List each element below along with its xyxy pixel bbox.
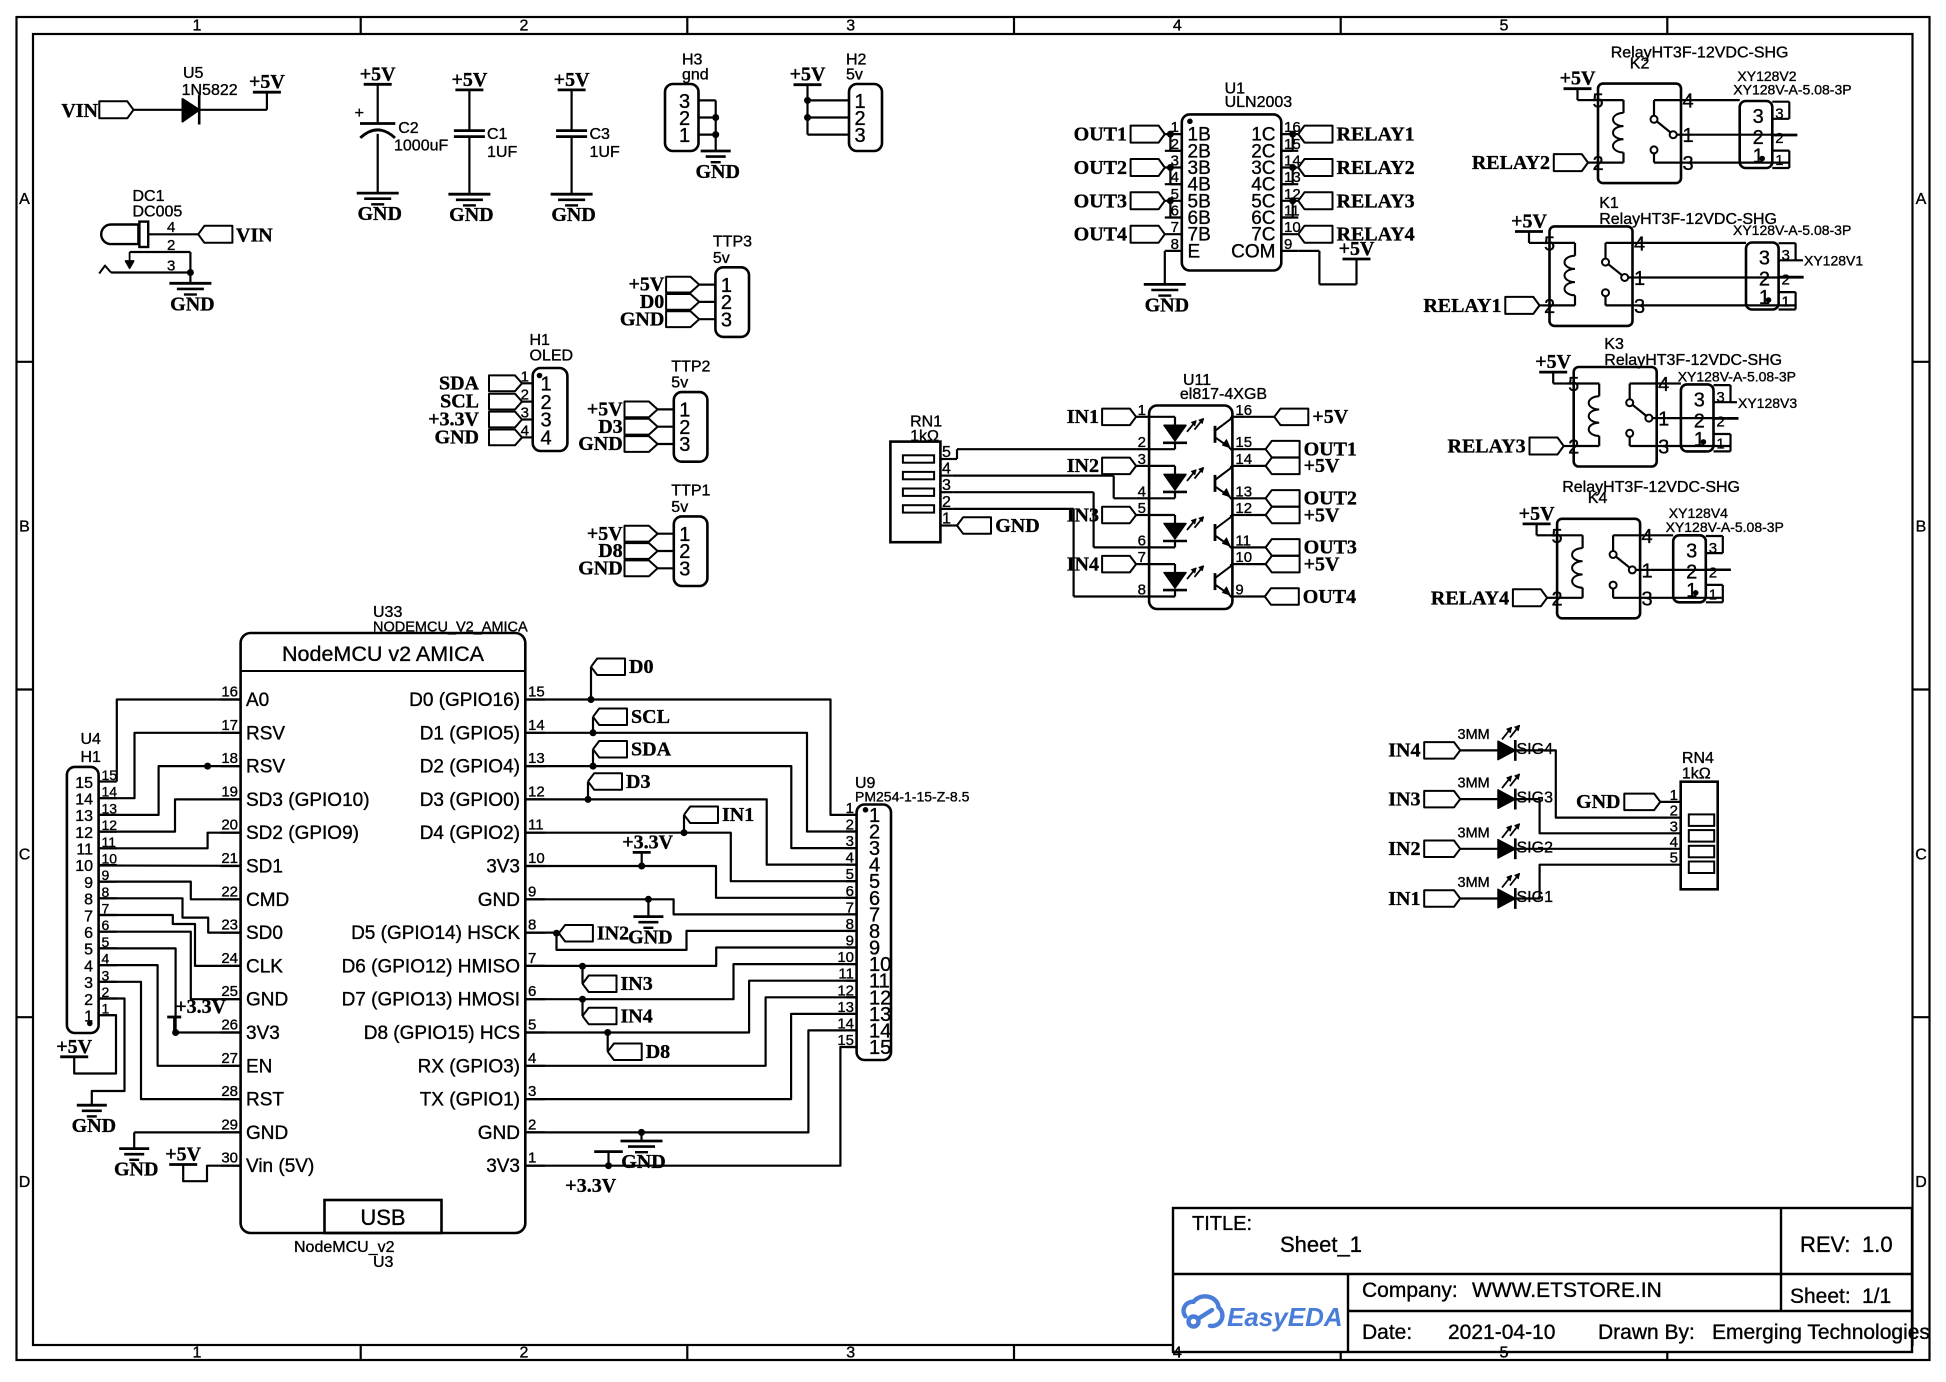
LED SIG1 3MM <box>1458 874 1554 909</box>
net flag OUT1 (U11 pin15) <box>1266 439 1357 461</box>
net flag +5V (U11 pin12) <box>1266 504 1340 526</box>
net flag OUT2 into U1 <box>1074 157 1165 179</box>
LED SIG2 3MM <box>1458 824 1554 859</box>
svg-text:D2 (GPIO4): D2 (GPIO4) <box>420 757 520 778</box>
connector XY128V4c XY128V-A-5.08-3P <box>1673 535 1717 603</box>
net flag RELAY2 from U1 <box>1298 157 1414 179</box>
wire TTP1 GND stub <box>658 567 674 569</box>
svg-text:10: 10 <box>102 851 118 867</box>
title block sheet name Sheet_1 <box>1280 1232 1362 1257</box>
resistor network RN1 1kOhm <box>890 414 952 543</box>
relay K4 RelayHT3F-12VDC-SHG <box>1547 519 1653 619</box>
svg-text:3V3: 3V3 <box>486 1156 520 1177</box>
svg-text:9: 9 <box>84 875 93 892</box>
wire +5V to K3 pin5 <box>1553 372 1564 383</box>
svg-text:1: 1 <box>679 125 690 147</box>
connector TTP1 body <box>674 516 708 586</box>
svg-text:12: 12 <box>528 783 545 800</box>
svg-text:28: 28 <box>221 1083 238 1100</box>
svg-text:15: 15 <box>528 684 545 701</box>
title block frame <box>1173 1208 1912 1352</box>
svg-text:TTP2: TTP2 <box>671 358 710 375</box>
title block Company <box>1362 1279 1662 1302</box>
junction RELAY3 node <box>1289 197 1296 204</box>
svg-text:B: B <box>19 519 30 536</box>
svg-text:SCL: SCL <box>631 706 670 728</box>
optocoupler cell 2 (LED + phototransistor) <box>1149 466 1232 498</box>
wire relay pin4 to XY128V3c <box>1667 382 1681 384</box>
wire XY128V4c pin2 stub <box>1706 568 1731 570</box>
svg-text:Sheet_1: Sheet_1 <box>1280 1232 1362 1257</box>
capacitor C3 1UF <box>556 126 620 161</box>
svg-text:1: 1 <box>1670 787 1678 804</box>
svg-text:CMD: CMD <box>246 890 289 911</box>
wire OUT1 fork to U1 pin2 <box>1170 134 1181 151</box>
svg-text:GND: GND <box>114 1159 158 1181</box>
ground GND (U4 pin2) <box>72 1105 116 1137</box>
wire TTP2 GND stub <box>658 443 674 445</box>
svg-text:GND: GND <box>246 990 288 1011</box>
svg-text:Vin (5V): Vin (5V) <box>246 1156 314 1177</box>
pin numbers H1 OLED stubs <box>521 368 529 439</box>
svg-text:Sheet:: Sheet: <box>1790 1285 1851 1308</box>
wire relay pin1 to XY128V1c pin2 <box>1643 276 1804 278</box>
wire D7 pin6 to U9 pin10 <box>525 964 856 999</box>
wire U4 pin1 to +5V <box>74 1015 116 1073</box>
svg-text:15: 15 <box>102 767 118 783</box>
svg-text:12: 12 <box>75 825 93 842</box>
wire U11 pin16 to +5V flag <box>1246 416 1275 418</box>
connector TTP3 5v label <box>713 234 752 267</box>
label XY128V-A-5.08-3P (K1) <box>1733 222 1851 238</box>
wire relay pin4 to XY128V1c <box>1643 242 1747 244</box>
svg-text:5: 5 <box>942 444 951 461</box>
svg-text:K3: K3 <box>1604 336 1624 353</box>
svg-text:GND: GND <box>1145 294 1189 316</box>
wire diode cathode to +5V <box>199 92 267 110</box>
svg-text:4: 4 <box>521 422 529 439</box>
power +5V (C3) <box>554 69 590 91</box>
power +5V (K4 coil) <box>1519 503 1555 525</box>
wire U4 pin3 to RST pin28 <box>99 982 241 1099</box>
svg-text:26: 26 <box>221 1017 238 1034</box>
net flag IN3 to U11 pin5 <box>1067 504 1136 526</box>
wire U4 pin9 to CMD pin22 <box>99 882 241 900</box>
svg-text:C3: C3 <box>590 126 611 143</box>
svg-text:DC1: DC1 <box>133 188 165 205</box>
net flag OUT2 (U11 pin13) <box>1266 488 1357 510</box>
junction IN2 node <box>553 930 560 937</box>
svg-text:13: 13 <box>75 808 93 825</box>
wire RN1 pin4 to U11 pin4 <box>952 476 1136 499</box>
svg-text:1.0: 1.0 <box>1862 1232 1893 1257</box>
svg-text:5: 5 <box>1552 526 1563 548</box>
svg-text:U3: U3 <box>373 1254 394 1271</box>
svg-text:2: 2 <box>520 18 529 35</box>
svg-text:3MM: 3MM <box>1458 776 1490 792</box>
net flag OUT3 into U1 <box>1074 190 1165 212</box>
svg-text:ULN2003: ULN2003 <box>1225 94 1293 111</box>
svg-text:5v: 5v <box>713 250 730 267</box>
svg-text:gnd: gnd <box>682 67 709 84</box>
svg-text:9: 9 <box>528 883 536 900</box>
svg-text:+5V: +5V <box>1560 68 1596 90</box>
net flag RELAY1 from U1 <box>1298 124 1414 146</box>
svg-text:RELAY1: RELAY1 <box>1423 295 1501 317</box>
relay K2 RelayHT3F-12VDC-SHG <box>1588 84 1694 184</box>
power +5V (U1 COM) <box>1339 238 1375 260</box>
wire +5V to K1 pin5 <box>1529 232 1540 243</box>
svg-text:OLED: OLED <box>530 348 574 365</box>
svg-text:3: 3 <box>679 559 690 581</box>
svg-text:+5V: +5V <box>1304 504 1340 526</box>
svg-text:IN4: IN4 <box>1388 740 1420 762</box>
svg-text:A: A <box>19 191 30 208</box>
svg-text:IN3: IN3 <box>621 973 653 995</box>
svg-text:RELAY1: RELAY1 <box>1337 124 1415 146</box>
wire relay pin4 to XY128V4c <box>1650 534 1673 536</box>
connector U4 H1 15-pin <box>67 731 117 1033</box>
svg-text:2: 2 <box>521 387 529 404</box>
ground GND (C1) <box>448 194 493 226</box>
connector TTP2 5v label <box>671 358 710 391</box>
svg-text:SD1: SD1 <box>246 857 283 878</box>
connector TTP3 body <box>715 267 749 337</box>
svg-text:E: E <box>1188 241 1201 262</box>
svg-text:IN3: IN3 <box>1388 788 1420 810</box>
wire U1 pin8 E to GND <box>1164 251 1166 285</box>
net flag +3.3V (H1 OLED) <box>428 409 533 431</box>
svg-text:1000uF: 1000uF <box>394 138 448 155</box>
connector H2 5v <box>846 52 882 152</box>
net flag IN2 (pin8 wire) <box>559 923 629 945</box>
svg-text:+5V: +5V <box>1535 351 1571 373</box>
svg-text:VIN: VIN <box>236 225 273 247</box>
svg-text:15: 15 <box>75 775 93 792</box>
svg-text:3: 3 <box>1782 247 1790 264</box>
svg-text:23: 23 <box>221 917 238 934</box>
wire +5V to C2 <box>377 84 379 123</box>
wire TTP2 +5V stub <box>658 408 674 410</box>
svg-text:+5V: +5V <box>56 1036 92 1058</box>
net flag +5V (U11 pin10) <box>1266 553 1340 575</box>
svg-text:D1 (GPIO5): D1 (GPIO5) <box>420 723 520 744</box>
connector XY128V3c XY128V-A-5.08-3P <box>1681 384 1725 452</box>
svg-text:20: 20 <box>221 817 238 834</box>
net flag OUT4 into U1 <box>1074 224 1165 246</box>
svg-text:3V3: 3V3 <box>246 1023 280 1044</box>
svg-text:5: 5 <box>1568 374 1579 396</box>
junction SDA node <box>590 763 597 770</box>
net flag +5V (U11 pin14) <box>1266 455 1340 477</box>
net flag SDA (H1 OLED) <box>439 372 533 394</box>
svg-text:29: 29 <box>221 1116 238 1133</box>
net flag D8 (TTP1 pin) <box>598 540 657 562</box>
net flag RELAY4 to K4 pin2 <box>1431 587 1547 609</box>
svg-text:4: 4 <box>1173 18 1182 35</box>
wire +5V to C1 <box>468 90 470 131</box>
svg-text:D0: D0 <box>629 656 653 678</box>
svg-text:3: 3 <box>1694 389 1705 411</box>
power +3.3V (pin1 wire) <box>565 1152 623 1197</box>
svg-text:14: 14 <box>528 717 545 734</box>
svg-text:OUT1: OUT1 <box>1074 124 1127 146</box>
ground GND (C2) <box>357 193 402 225</box>
net flag RELAY3 from U1 <box>1298 190 1414 212</box>
svg-text:D3: D3 <box>626 771 650 793</box>
svg-text:3: 3 <box>1670 818 1678 835</box>
junction DC1 pin3 node <box>187 269 194 276</box>
svg-text:3: 3 <box>846 18 855 35</box>
svg-text:5: 5 <box>84 942 93 959</box>
wire U4 pin10 to SD1 pin21 <box>99 864 241 866</box>
wire DC1 pin3 to GND <box>189 273 191 284</box>
svg-text:3V3: 3V3 <box>486 857 520 878</box>
svg-text:2: 2 <box>1592 153 1603 175</box>
ground GND (DC1) <box>169 283 214 315</box>
svg-text:PM254-1-15-Z-8.5: PM254-1-15-Z-8.5 <box>855 789 970 805</box>
svg-text:4: 4 <box>942 461 951 478</box>
title block TITLE <box>1192 1213 1252 1235</box>
net flag IN3 (pin7 wire) <box>583 966 653 995</box>
power +5V (C1) <box>451 69 487 91</box>
junction +3.3V pin10 node <box>638 863 645 870</box>
wire U11 pin12 to +5V flag <box>1246 514 1266 516</box>
net label XY128V3 <box>1731 395 1798 411</box>
wire XY128V3c pin2 stub <box>1714 418 1739 420</box>
wire relay pin3 to XY128V4c pin1 <box>1650 597 1723 599</box>
junction IN1 node <box>681 829 688 836</box>
junction OUT2 node <box>1167 164 1174 171</box>
svg-text:D: D <box>1915 1174 1927 1191</box>
svg-text:5: 5 <box>1138 500 1146 517</box>
svg-text:IN1: IN1 <box>1388 888 1420 910</box>
svg-text:30: 30 <box>221 1150 238 1167</box>
connector DC1 DC005 barrel jack <box>101 188 182 275</box>
wire VIN to diode U5 anode <box>134 109 183 111</box>
wire XY128V1c pin3 bracket <box>1779 243 1796 260</box>
svg-text:1/1: 1/1 <box>1862 1285 1891 1308</box>
wire U4 pin12 to SD3 pin19 <box>99 799 241 831</box>
svg-text:1: 1 <box>521 368 529 385</box>
title block Sheet 1/1 <box>1790 1285 1891 1308</box>
svg-text:RELAY3: RELAY3 <box>1337 190 1415 212</box>
svg-text:4: 4 <box>1138 483 1146 500</box>
svg-text:3: 3 <box>84 975 93 992</box>
wire U4 pin14 to RSV pin17 <box>99 733 241 798</box>
junction node on RSV pin18 wire <box>204 763 211 770</box>
power +5V (near U5) <box>249 71 285 93</box>
svg-text:el817-4XGB: el817-4XGB <box>1180 386 1267 403</box>
svg-text:3MM: 3MM <box>1458 727 1490 743</box>
svg-text:+5V: +5V <box>165 1144 201 1166</box>
svg-text:8: 8 <box>528 917 536 934</box>
svg-text:3: 3 <box>1709 540 1717 557</box>
svg-text:2: 2 <box>1782 272 1790 289</box>
svg-text:IN4: IN4 <box>1067 553 1099 575</box>
wire +5V to K2 pin5 <box>1578 89 1589 100</box>
wire D4 pin11 to U9 pin5 <box>525 833 856 882</box>
net flag D0 (pin15 wire) <box>591 656 653 699</box>
svg-text:Emerging Technologies: Emerging Technologies <box>1712 1321 1930 1344</box>
svg-text:5: 5 <box>1544 233 1555 255</box>
svg-text:16: 16 <box>221 684 238 701</box>
svg-text:6: 6 <box>1138 532 1146 549</box>
svg-text:1: 1 <box>1716 435 1724 452</box>
svg-text:SDA: SDA <box>631 739 672 761</box>
wire SIG4 to RN4 pin2 <box>1515 750 1680 817</box>
wire U4 pin5 to 3V3 pin26 <box>99 948 241 1032</box>
svg-text:5: 5 <box>528 1017 536 1034</box>
title block REV 1.0 <box>1800 1232 1893 1257</box>
svg-text:+5V: +5V <box>249 71 285 93</box>
svg-text:10: 10 <box>75 858 93 875</box>
svg-text:OUT4: OUT4 <box>1074 224 1127 246</box>
LED SIG4 3MM <box>1458 725 1554 760</box>
svg-text:1: 1 <box>1658 409 1669 431</box>
svg-text:TTP1: TTP1 <box>671 483 710 500</box>
svg-text:1UF: 1UF <box>590 144 620 161</box>
relay K3 RelayHT3F-12VDC-SHG <box>1564 367 1670 467</box>
svg-text:GND: GND <box>1576 791 1620 813</box>
svg-text:GND: GND <box>551 204 595 226</box>
junction OUT1 node <box>1167 131 1174 138</box>
svg-text:VIN: VIN <box>61 100 98 122</box>
svg-text:Drawn By:: Drawn By: <box>1598 1321 1695 1344</box>
svg-text:7: 7 <box>1138 549 1146 566</box>
svg-text:+3.3V: +3.3V <box>622 831 673 853</box>
svg-text:1: 1 <box>84 1009 93 1026</box>
wire RELAY2 fork to U1 pin13 <box>1281 168 1292 185</box>
svg-text:1N5822: 1N5822 <box>182 82 238 99</box>
optocoupler cell 4 (LED + phototransistor) <box>1149 564 1232 596</box>
net flag VIN (output of DC1) <box>198 225 273 247</box>
relay K1 RelayHT3F-12VDC-SHG <box>1540 226 1646 326</box>
net flag RELAY3 to K3 pin2 <box>1448 436 1564 458</box>
net flag OUT1 into U1 <box>1074 124 1165 146</box>
svg-text:USB: USB <box>360 1205 405 1230</box>
svg-text:U33: U33 <box>373 604 402 621</box>
svg-text:+5V: +5V <box>360 63 396 85</box>
svg-text:3: 3 <box>1642 588 1653 610</box>
svg-text:3: 3 <box>721 309 732 331</box>
wire U4 pin6 to GND pin25 <box>99 932 241 1000</box>
net flag +5V (TTP2 pin) <box>587 399 658 421</box>
frame column labels over title block <box>1173 1345 1509 1362</box>
wire OUT3 fork to U1 pin6 <box>1170 201 1181 218</box>
svg-text:13: 13 <box>528 750 545 767</box>
svg-text:SD2 (GPIO9): SD2 (GPIO9) <box>246 823 359 844</box>
wire D0 pin15 to U9 pin1 <box>525 700 856 815</box>
svg-text:DC005: DC005 <box>133 204 183 221</box>
svg-text:8: 8 <box>1171 236 1179 253</box>
junction +3.3V pin1 node <box>605 1162 612 1169</box>
svg-text:C: C <box>19 846 31 863</box>
svg-text:3: 3 <box>846 1345 855 1362</box>
svg-text:7: 7 <box>84 908 93 925</box>
svg-text:XY128V-A-5.08-3P: XY128V-A-5.08-3P <box>1666 519 1784 535</box>
svg-text:GND: GND <box>478 1123 520 1144</box>
svg-text:2: 2 <box>942 494 951 511</box>
svg-text:TITLE:: TITLE: <box>1192 1213 1252 1235</box>
label XY128V4 <box>1666 505 1784 535</box>
svg-text:4: 4 <box>84 958 93 975</box>
svg-text:CLK: CLK <box>246 956 283 977</box>
svg-text:RELAY2: RELAY2 <box>1337 157 1415 179</box>
svg-text:5v: 5v <box>846 67 863 84</box>
junction GND pin2 node <box>638 1129 645 1136</box>
net flag IN2 (LED row) <box>1388 838 1460 860</box>
wire TTP3 GND stub <box>699 318 715 320</box>
optocoupler cell 3 (LED + phototransistor) <box>1149 515 1232 547</box>
svg-text:RSV: RSV <box>246 757 285 778</box>
net flag GND (TTP3 pin) <box>620 308 699 330</box>
wire U4 pin13 to RSV pin18 <box>99 766 241 815</box>
svg-text:3: 3 <box>1753 106 1764 128</box>
net flag SCL (H1 OLED) <box>440 391 533 413</box>
svg-text:3: 3 <box>521 405 529 422</box>
wire RELAY1 fork to U1 pin15 <box>1281 134 1292 151</box>
wire U4 pin7 to CLK pin24 <box>99 915 241 966</box>
wire C1 to GND <box>468 137 470 195</box>
svg-text:RX (GPIO3): RX (GPIO3) <box>418 1056 520 1077</box>
connector H1 OLED <box>530 332 574 451</box>
ground GND (pin9 wire) <box>628 917 672 949</box>
svg-text:+5V: +5V <box>1511 211 1547 233</box>
svg-text:GND: GND <box>695 161 739 183</box>
wire GND stub (pin9 wire) <box>647 899 649 916</box>
connector TTP2 body <box>674 392 708 462</box>
wire H3 pins to GND bus <box>699 100 716 151</box>
label XY128V-A-5.08-3P (K3) <box>1678 369 1796 385</box>
svg-text:C1: C1 <box>487 126 508 143</box>
wire XY128V1c pin2 stub <box>1779 276 1804 278</box>
wire OUT2 fork to U1 pin4 <box>1170 168 1181 185</box>
wire relay pin1 to XY128V4c pin2 <box>1650 569 1731 571</box>
svg-text:2: 2 <box>1544 296 1555 318</box>
wire U11 pin9 to OUT4 flag <box>1246 595 1265 597</box>
wire TTP2 D3 stub <box>658 426 674 428</box>
power +5V (U4 pin1) <box>56 1036 92 1058</box>
svg-text:19: 19 <box>221 783 238 800</box>
wire TTP3 D0 stub <box>699 301 715 303</box>
svg-text:+5V: +5V <box>1312 406 1348 428</box>
power +5V (K2 coil) <box>1560 68 1596 90</box>
wire GND pin29 <box>134 1132 240 1148</box>
wire D6 pin7 to U9 pin9 <box>525 948 856 966</box>
svg-text:10: 10 <box>528 850 545 867</box>
svg-text:NodeMCU v2 AMICA: NodeMCU v2 AMICA <box>282 642 485 666</box>
net flag D8 (pin5 wire) <box>608 1033 670 1064</box>
svg-text:1: 1 <box>1775 152 1783 169</box>
ground GND (pin29) <box>114 1149 158 1181</box>
wire 3V3 pin10 to U9 pin6 <box>525 866 856 898</box>
svg-text:RSV: RSV <box>246 723 285 744</box>
junction RELAY2 node <box>1289 164 1296 171</box>
svg-text:7: 7 <box>1171 219 1179 236</box>
svg-text:3: 3 <box>1759 248 1770 270</box>
svg-text:TX (GPIO1): TX (GPIO1) <box>420 1090 520 1111</box>
ground GND (H3) <box>695 151 739 183</box>
wire SIG1 to RN4 pin5 <box>1515 865 1680 899</box>
svg-text:5v: 5v <box>671 499 688 516</box>
svg-text:3: 3 <box>1658 437 1669 459</box>
svg-text:2: 2 <box>1552 588 1563 610</box>
wire RELAY3 fork to U1 pin11 <box>1281 201 1292 218</box>
EasyEDA logo <box>1184 1296 1343 1332</box>
wire +5V bus to H2 pins <box>808 85 850 135</box>
svg-text:4: 4 <box>528 1050 536 1067</box>
